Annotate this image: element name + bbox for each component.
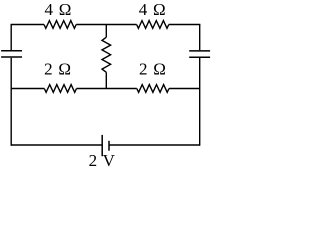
- wire bottom-right (battery - to node E side): [109, 144, 200, 146]
- resistor R3 2ohm (middle-left): [44, 85, 76, 93]
- wire bottom-left (node D side to battery +): [11, 144, 102, 146]
- resistor R1 4ohm (top-left): [44, 21, 76, 29]
- svg-text:2 V: 2 V: [89, 151, 116, 170]
- svg-text:2 Ω: 2 Ω: [44, 59, 71, 78]
- wire center vertical upper (node B to R5): [105, 25, 107, 38]
- wire top-middle (R1 to R2 through node B): [76, 24, 136, 26]
- wire right upper (node C to C2): [199, 25, 201, 51]
- capacitor C1 (left edge): [1, 51, 22, 57]
- svg-text:2 Ω: 2 Ω: [139, 59, 166, 78]
- wire right lower (C2 to node E to bottom-right corner): [198, 58, 201, 145]
- battery V1 long plate (positive): [101, 135, 103, 156]
- wire top-right (R2 to node C): [169, 24, 200, 27]
- wire middle-right (R4 to node E): [169, 88, 200, 90]
- wire left lower (C1 to node D to bottom-left corner): [10, 58, 13, 145]
- resistor R5 (center vertical): [102, 37, 111, 72]
- capacitor C2 (right edge): [189, 51, 210, 57]
- wire middle-left (node D to R3): [11, 88, 44, 90]
- svg-text:4 Ω: 4 Ω: [139, 0, 166, 19]
- battery V1 short plate (negative): [108, 141, 110, 151]
- wire left upper (node A to C1): [10, 25, 12, 51]
- wire middle-center (R3 to R4 through node F): [77, 88, 137, 90]
- resistor R2 4ohm (top-right): [137, 21, 169, 29]
- wire center vertical lower (R5 to node F): [105, 72, 107, 88]
- wire top-left (node A to R1): [11, 23, 44, 26]
- resistor R4 2ohm (middle-right): [137, 85, 169, 93]
- svg-text:4 Ω: 4 Ω: [45, 0, 72, 19]
